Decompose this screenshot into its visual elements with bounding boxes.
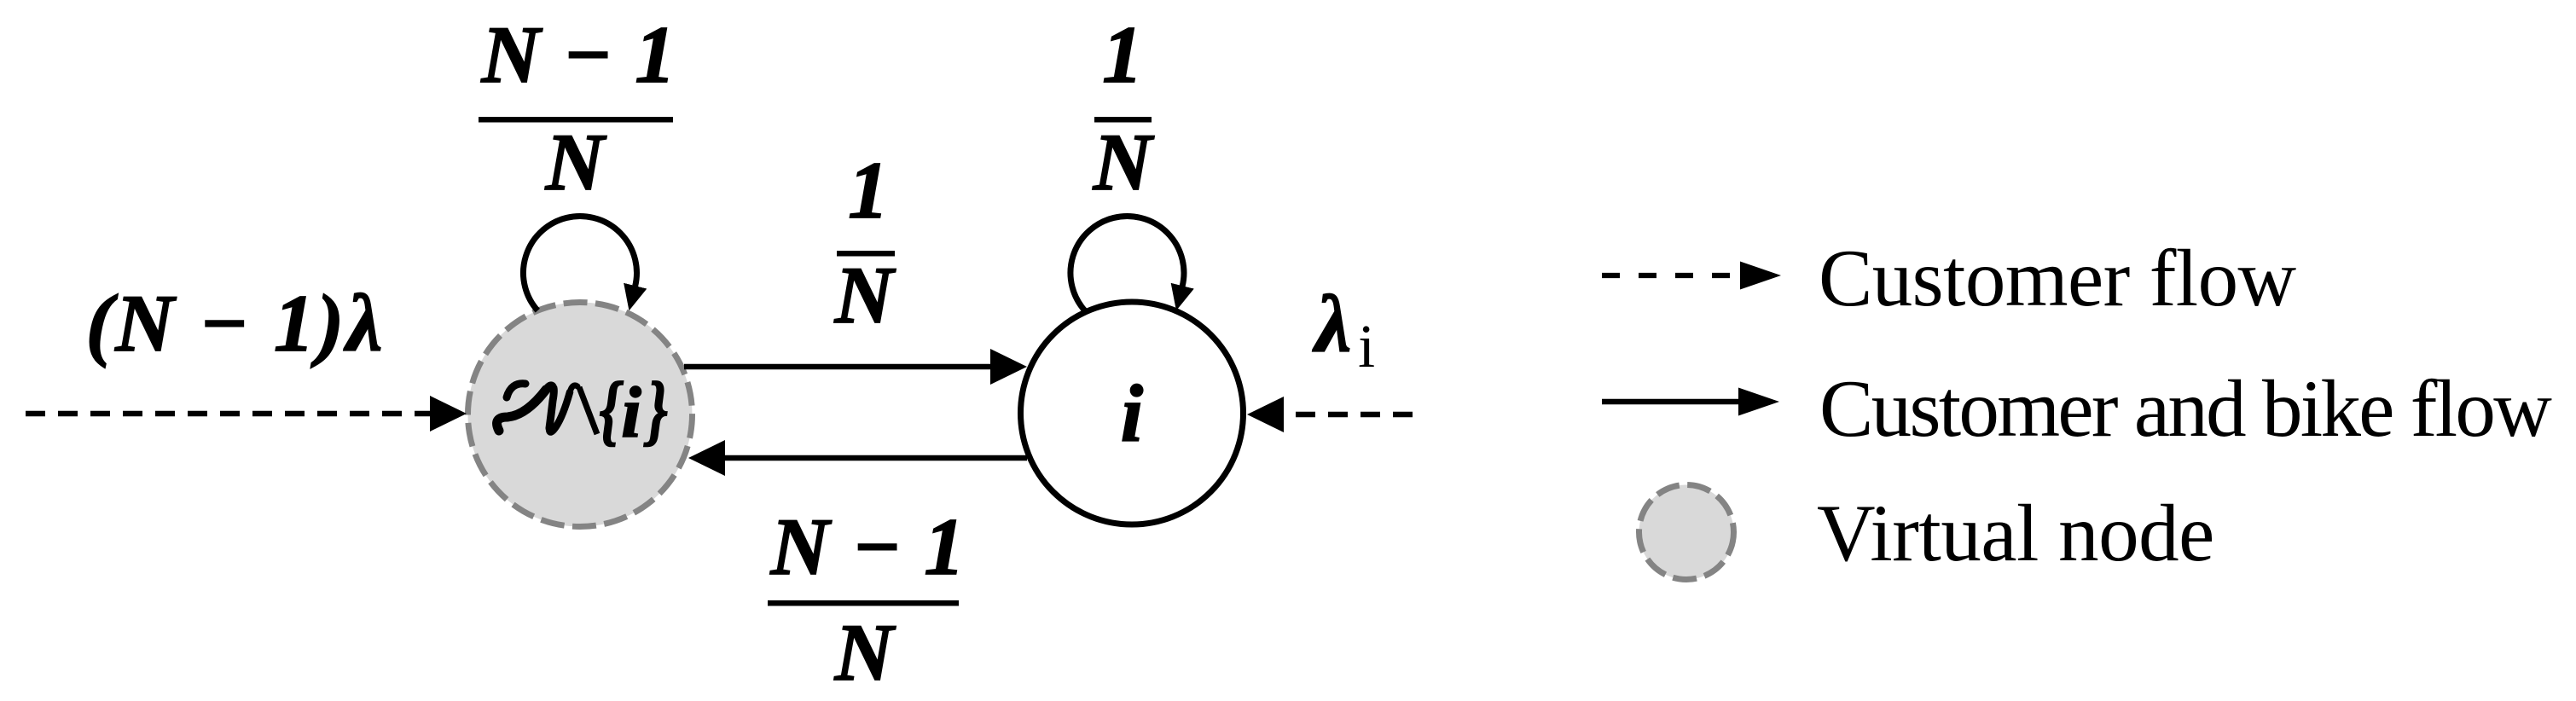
label fraction 1/N above arrow bbox=[834, 145, 896, 340]
label fraction 1/N above node i bbox=[1093, 9, 1155, 207]
svg-text:1: 1 bbox=[848, 145, 889, 235]
arrow from virtual node to node i bbox=[684, 364, 991, 370]
self-loop on node i bbox=[1070, 216, 1184, 310]
virtual node label N\{i} bbox=[497, 366, 668, 454]
node i : solid circle bbox=[1021, 302, 1244, 524]
svg-text:N − 1: N − 1 bbox=[770, 501, 966, 592]
svg-text:}: } bbox=[643, 366, 667, 454]
svg-text:N: N bbox=[834, 250, 896, 340]
svg-text:(N − 1)λ: (N − 1)λ bbox=[86, 278, 386, 368]
legend solid arrow (customer and bike flow) bbox=[1602, 399, 1739, 404]
dashed arrow into virtual node from left bbox=[26, 411, 431, 417]
svg-text:i: i bbox=[621, 373, 641, 453]
svg-text:N: N bbox=[834, 607, 896, 698]
svg-text:N − 1: N − 1 bbox=[481, 9, 677, 100]
svg-text:λi: λi bbox=[1312, 279, 1375, 380]
self-loop on virtual node bbox=[523, 216, 636, 310]
dashed arrow into node i from right bbox=[1283, 412, 1413, 418]
svg-text:1: 1 bbox=[1102, 9, 1143, 100]
svg-text:Virtual node: Virtual node bbox=[1817, 488, 2214, 578]
svg-text:Customer and bike flow: Customer and bike flow bbox=[1819, 363, 2552, 454]
svg-text:i: i bbox=[1121, 368, 1143, 459]
arrow from node i back to virtual node bbox=[724, 455, 1027, 461]
legend virtual node swatch bbox=[1639, 485, 1734, 580]
label fraction (N-1)/N below arrow bbox=[768, 501, 966, 698]
virtual node N\{i} : gray dashed circle bbox=[468, 303, 693, 527]
label fraction (N-1)/N above virtual node bbox=[479, 9, 676, 207]
legend dashed arrow (customer flow) bbox=[1602, 273, 1741, 278]
svg-text:Customer flow: Customer flow bbox=[1819, 233, 2297, 323]
svg-text:N: N bbox=[545, 117, 607, 207]
svg-text:N: N bbox=[1093, 117, 1155, 207]
